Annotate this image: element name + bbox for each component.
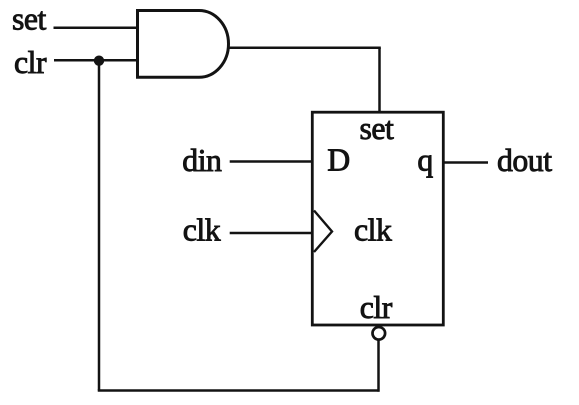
svg-text:clk: clk bbox=[354, 213, 392, 248]
svg-text:D: D bbox=[327, 143, 349, 178]
svg-text:clk: clk bbox=[183, 213, 221, 248]
svg-text:set: set bbox=[360, 111, 394, 146]
svg-text:dout: dout bbox=[497, 143, 552, 178]
svg-text:clr: clr bbox=[360, 290, 393, 325]
svg-text:q: q bbox=[417, 143, 433, 178]
svg-text:set: set bbox=[12, 2, 46, 37]
svg-text:din: din bbox=[182, 143, 222, 178]
svg-text:clr: clr bbox=[14, 45, 47, 80]
